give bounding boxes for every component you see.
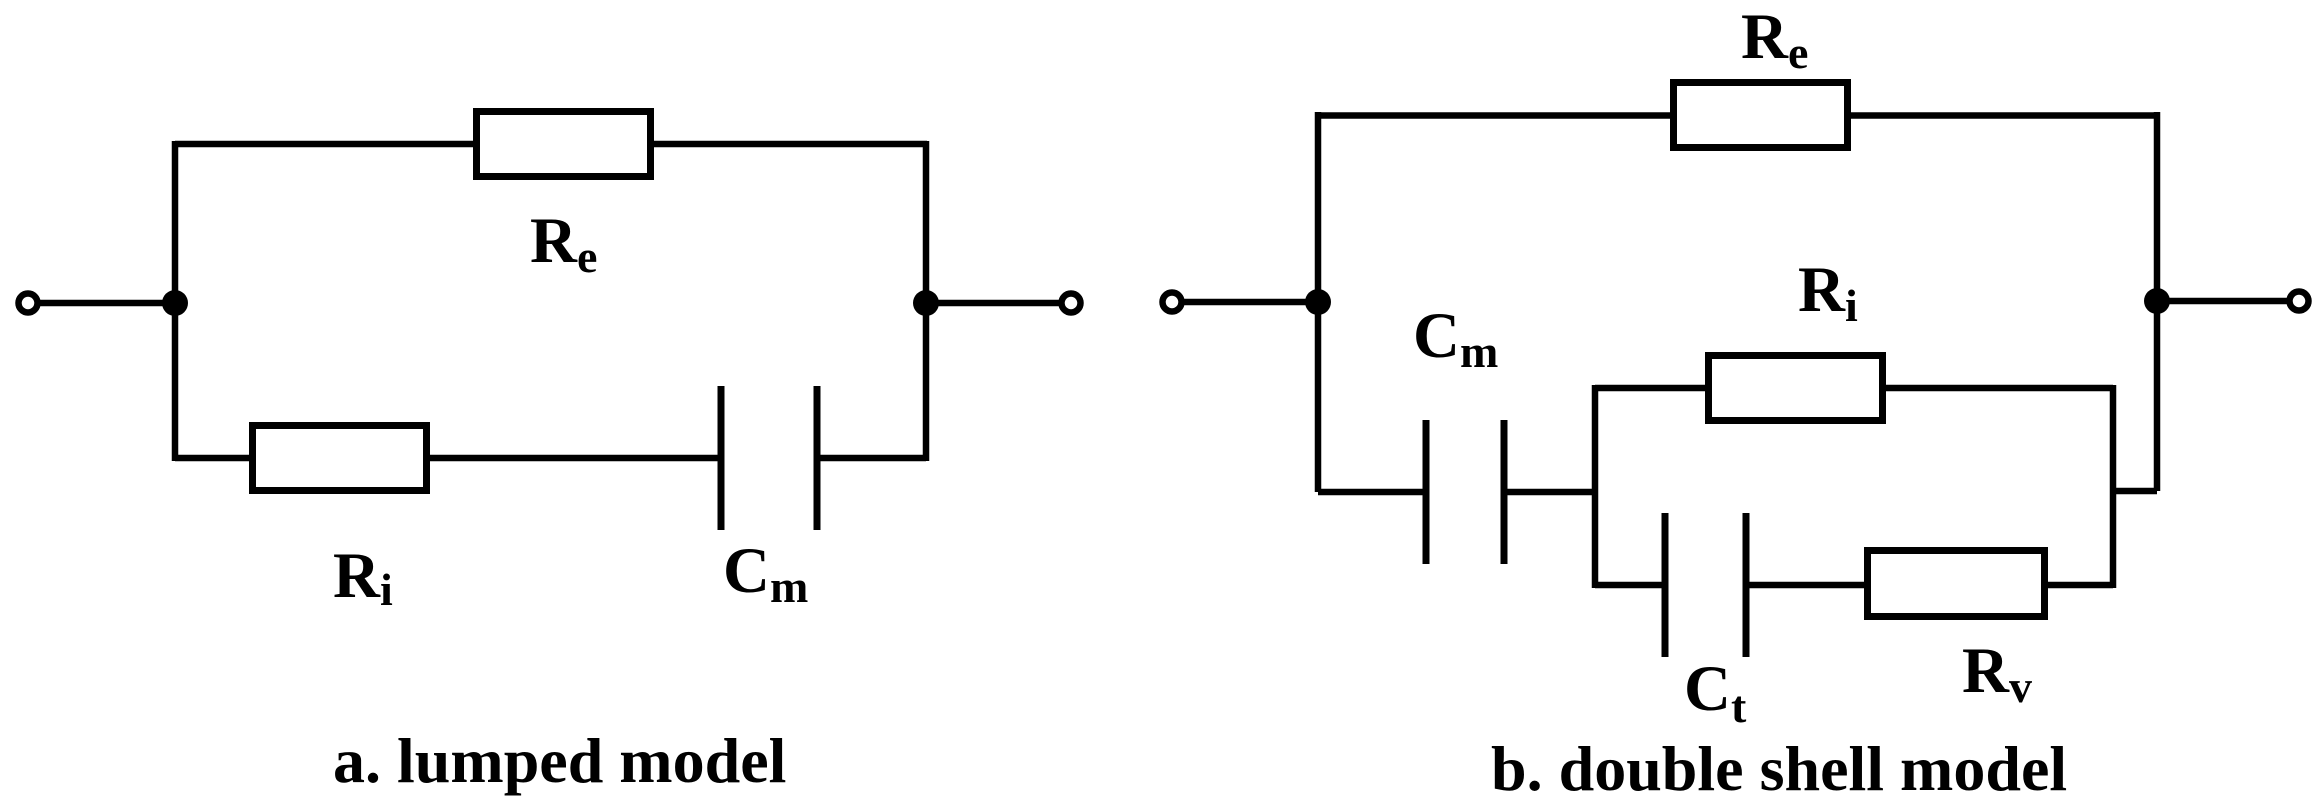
svg-text:a. lumped model: a. lumped model bbox=[333, 725, 786, 796]
svg-text:b. double shell model: b. double shell model bbox=[1491, 733, 2067, 804]
